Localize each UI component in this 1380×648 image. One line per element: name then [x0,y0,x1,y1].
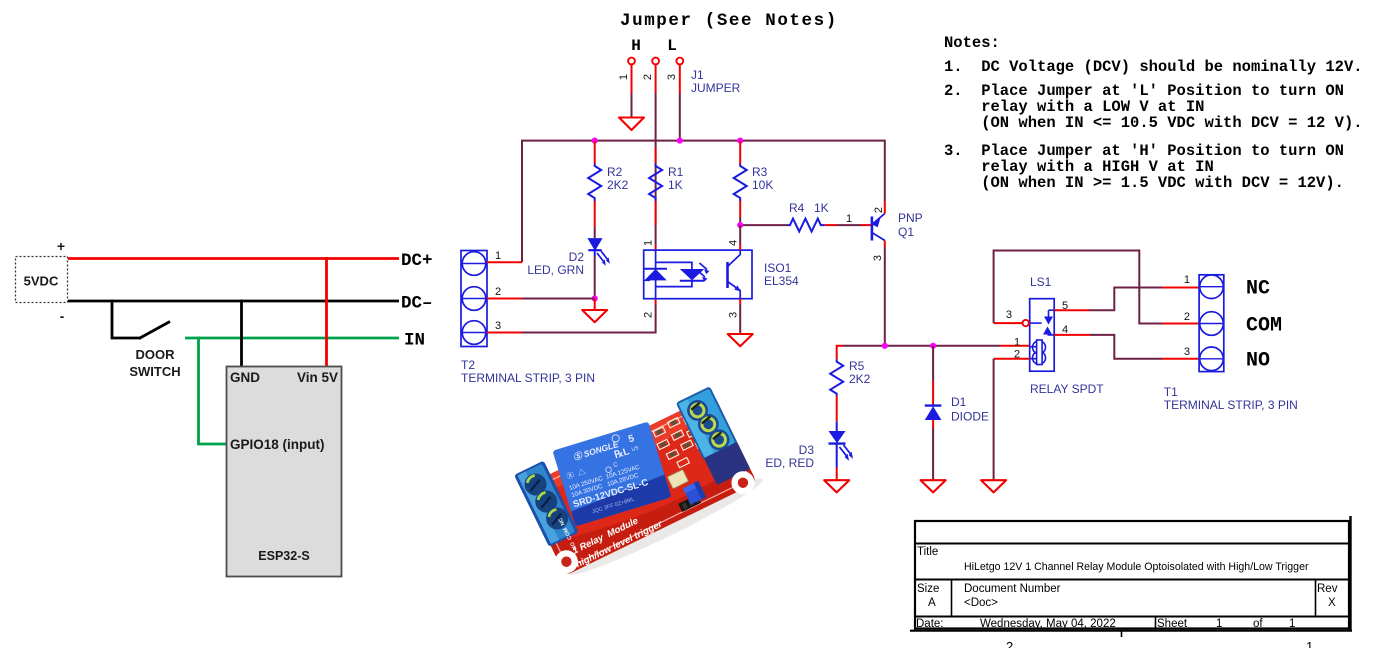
ground (D3) [824,480,849,492]
svg-text:3: 3 [495,320,501,332]
svg-text:1K: 1K [814,201,829,215]
wire top bus (maroon) [522,141,885,263]
svg-text:COM: COM [1246,315,1282,338]
svg-text:3: 3 [1006,309,1012,321]
connector J1 pin 2 [642,58,659,81]
resistor R4 [740,201,872,232]
wire ISO1 pin3 to ground [739,299,741,334]
svg-text:Wednesday, May 04, 2022: Wednesday, May 04, 2022 [980,618,1116,630]
node COM label [1246,315,1282,338]
node junction dot bus/J1pin3 [677,138,683,144]
wire GND to ESP32 (black) [240,300,243,366]
node DC- label [401,294,433,314]
ground (D1) [921,480,946,492]
yellow opto part [667,470,688,489]
relay coil symbol [1030,340,1046,365]
door switch label [129,347,180,379]
svg-text:J1: J1 [691,68,704,82]
sheet border [910,516,1352,648]
wire coil net horizontal [837,346,1030,359]
svg-text:JUMPER: JUMPER [691,81,741,95]
svg-text:1K: 1K [668,178,683,192]
node junction dot D2/T2pin2 [592,295,598,301]
terminal strip T2 [461,251,487,347]
svg-text:DC–: DC– [401,294,433,314]
svg-text:Sheet: Sheet [1157,618,1188,630]
left terminal block [514,461,579,547]
svg-text:Rev: Rev [1317,583,1338,595]
relay pin 4 wire to T1 NO [1054,324,1199,359]
connector J1 pin 3 [666,58,683,81]
svg-text:<Doc>: <Doc> [964,597,998,609]
node junction dot bus/R3 [737,138,743,144]
jumper H label [631,37,641,55]
svg-text:2K2: 2K2 [849,372,871,386]
svg-text:of: of [1253,618,1263,630]
node NO label [1246,350,1270,373]
RELAY SPDT label [1030,382,1104,396]
wire Q1 collector down [884,241,886,346]
optocoupler ISO1 box [644,250,752,299]
node junction dot R3/R4/ISO pin4 [737,222,743,228]
ground (D2) [582,310,607,322]
svg-text:L: L [667,37,677,55]
svg-text:Q1: Q1 [898,225,914,239]
smd parts [650,401,751,513]
svg-text:2: 2 [1184,311,1190,323]
svg-text:SWITCH: SWITCH [129,364,180,379]
LED D2 [527,239,608,277]
resistor R3 [734,141,774,226]
svg-text:R2: R2 [607,165,623,179]
svg-text:NO: NO [1246,350,1270,373]
svg-text:1: 1 [618,74,630,80]
ground (relay coil) [981,480,1006,492]
svg-text:1: 1 [1306,639,1313,648]
svg-text:A: A [928,597,936,609]
resistor R5 [830,359,870,422]
T1 pin numbers [1184,274,1190,358]
svg-text:T1: T1 [1164,385,1178,399]
svg-text:+: + [57,238,65,254]
svg-text:RELAY SPDT: RELAY SPDT [1030,382,1104,396]
svg-text:GPIO18 (input): GPIO18 (input) [230,437,325,452]
svg-text:1: 1 [495,250,501,262]
T2 pin 1 wire [487,250,522,262]
svg-text:(ON when IN >= 1.5 VDC with DC: (ON when IN >= 1.5 VDC with DCV = 12V). [944,174,1344,192]
svg-text:4: 4 [728,240,740,246]
relay body [553,422,672,527]
svg-text:Date:: Date: [916,618,944,630]
wire GPIO18 (green) [199,337,227,444]
svg-text:1: 1 [643,240,655,246]
relay pin 2 wire to ground [994,349,1030,480]
relay pin 1 wire [1014,337,1020,349]
svg-text:T2: T2 [461,358,475,372]
relay LS1 box [1030,299,1055,372]
svg-text:TERMINAL STRIP, 3 PIN: TERMINAL STRIP, 3 PIN [1164,398,1298,412]
notes text block [944,34,1363,192]
relay pin 3 wire with circle [994,309,1029,326]
jumper and header [673,481,707,512]
LS1 label [1030,275,1052,289]
svg-text:3: 3 [728,312,740,318]
svg-text:1: 1 [846,213,852,225]
T2 pin 2 wire [487,286,595,299]
transistor Q1 (PNP) [872,207,923,261]
svg-text:DC+: DC+ [401,251,433,271]
connector J1 pin 1 [618,58,635,81]
svg-text:D2: D2 [569,250,585,264]
svg-text:10K: 10K [752,178,773,192]
svg-text:2: 2 [643,312,655,318]
svg-text:IN: IN [404,331,425,351]
node DC+ label [401,251,433,271]
svg-text:PNP: PNP [898,211,923,225]
svg-text:3: 3 [872,255,884,261]
wire J1 pin1 to ground [631,65,633,118]
svg-text:HiLetgo 12V 1 Channel Relay Mo: HiLetgo 12V 1 Channel Relay Module Optoi… [964,561,1309,573]
wire DC+ (red) [68,257,399,260]
svg-text:DOOR: DOOR [136,347,176,362]
relay switch contacts [1030,310,1055,335]
wire Vin 5V to ESP32 (red) [325,257,328,366]
svg-text:3: 3 [1184,346,1190,358]
mounting holes [551,462,758,583]
node IN label [404,331,425,351]
svg-text:TERMINAL STRIP, 3 PIN: TERMINAL STRIP, 3 PIN [461,371,595,385]
svg-text:R3: R3 [752,165,768,179]
svg-text:EL354: EL354 [764,274,799,288]
diode D1 [925,346,989,480]
relay pin 5 wire to T1 NC [1054,288,1199,313]
svg-text:LED, GRN: LED, GRN [527,263,584,277]
jumper header text [620,11,838,31]
wire Q1 emitter (red) [884,201,886,214]
svg-text:ED, RED: ED, RED [765,456,814,470]
svg-text:2K2: 2K2 [607,178,629,192]
T2 pin 3 wire [487,299,656,333]
LED D3 [765,422,851,480]
wire ISO1 pin4 up [739,225,741,250]
node junction dot D1/coil net [930,343,936,349]
wire relay pin3 up-over to T1 COM [994,251,1200,324]
ESP32-S module [227,367,342,577]
relay module photo [510,373,768,586]
svg-text:2: 2 [642,74,654,80]
ground (jumper H) [619,118,644,131]
svg-text:-: - [60,308,65,324]
svg-text:Jumper (See Notes): Jumper (See Notes) [620,11,838,31]
svg-text:2: 2 [873,207,885,213]
jumper L label [667,37,677,55]
resistor R2 [588,141,628,238]
svg-text:2: 2 [495,286,501,298]
node junction dot bus/R2 [592,138,598,144]
wire DC- (black) [68,300,399,303]
svg-text:R5: R5 [849,359,865,373]
svg-text:H: H [631,37,641,55]
wire junction to ground (red) [594,299,596,310]
svg-text:Notes:: Notes: [944,34,1000,52]
svg-text:1: 1 [1014,337,1020,349]
svg-text:Size: Size [917,583,939,595]
svg-text:GND: GND [230,370,260,385]
ISO1 label [764,261,799,288]
title block frame [915,521,1349,629]
ISO1 pin number labels [643,240,740,318]
svg-text:D1: D1 [951,395,967,409]
T1 label [1164,385,1298,412]
resistor R1 [649,148,684,225]
door switch [112,300,170,339]
T2 label [461,358,595,385]
J1 label [691,68,741,95]
ISO1 light arrows [698,263,710,282]
svg-text:R4: R4 [789,201,805,215]
wire IN (green) [185,337,399,340]
svg-text:NC: NC [1246,278,1270,301]
svg-text:1. DC Voltage (DCV) should be: 1. DC Voltage (DCV) should be nominally … [944,58,1363,76]
svg-text:1: 1 [1216,618,1222,630]
title block text [916,546,1338,630]
svg-text:Title: Title [917,546,938,558]
right terminal block [676,386,750,485]
ISO1 phototransistor [728,250,741,299]
svg-text:Document Number: Document Number [964,583,1061,595]
node junction dot Q1/coil net [882,343,888,349]
svg-text:ESP32-S: ESP32-S [258,549,309,563]
svg-text:D3: D3 [799,443,815,457]
svg-text:X: X [1328,597,1336,609]
svg-text:R1: R1 [668,165,684,179]
node NC label [1246,278,1270,301]
terminal strip T1 [1199,275,1224,372]
svg-text:1: 1 [1289,618,1295,630]
power source 5VDC [16,238,68,324]
svg-text:Vin 5V: Vin 5V [297,370,338,385]
svg-text:5VDC: 5VDC [24,274,59,289]
silkscreen text [555,478,666,570]
wire J1 pin2 down to ISO1 pin1 [655,65,657,252]
svg-text:(ON when IN <= 10.5 VDC with D: (ON when IN <= 10.5 VDC with DCV = 12 V)… [944,114,1363,132]
svg-text:3: 3 [666,74,678,80]
ground (ISO1 pin3) [728,334,753,346]
svg-text:1: 1 [1184,274,1190,286]
wire J1 pin3 to bus [679,65,681,141]
wire D2 to junction [594,250,596,298]
ISO1 internal LED pair [644,250,705,299]
svg-text:LS1: LS1 [1030,275,1052,289]
svg-text:ISO1: ISO1 [764,261,792,275]
svg-text:2: 2 [1006,639,1013,648]
svg-text:DIODE: DIODE [951,410,989,424]
